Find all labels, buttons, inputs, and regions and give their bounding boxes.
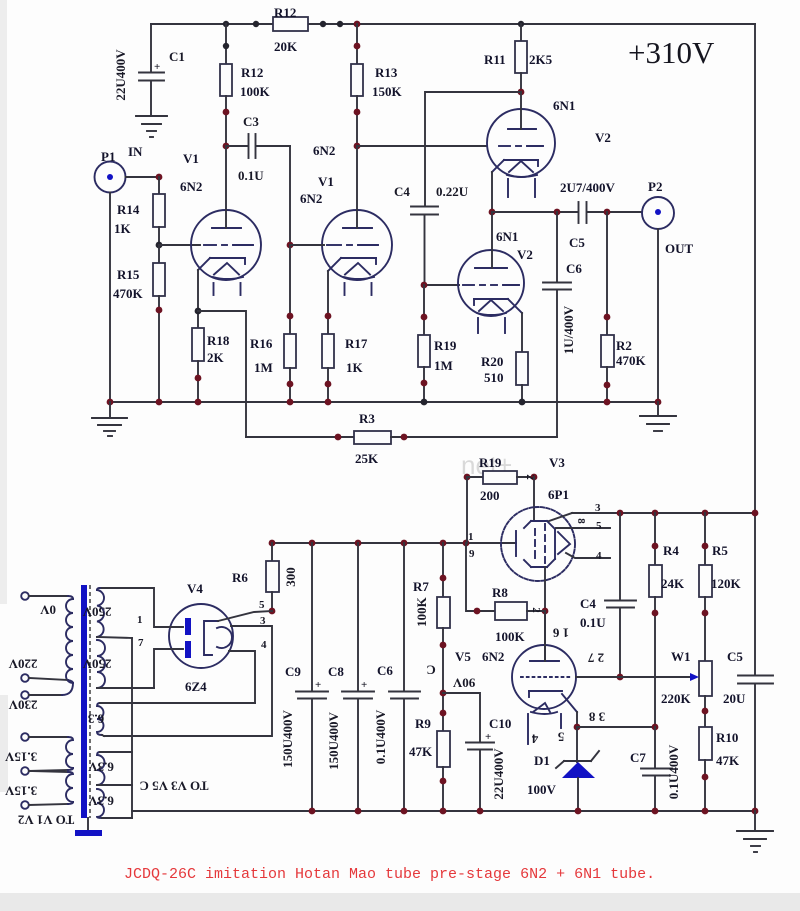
svg-text:JCDQ-26C imitation Hotan Mao t: JCDQ-26C imitation Hotan Mao tube pre-st… [124, 866, 655, 883]
svg-text:R20: R20 [481, 354, 503, 369]
svg-text:+: + [315, 679, 321, 691]
svg-text:1 6: 1 6 [552, 626, 569, 641]
svg-text:9: 9 [469, 548, 475, 560]
wire V4 pin 4 [100, 651, 255, 703]
svg-text:6.3: 6.3 [87, 712, 104, 727]
svg-text:6P1: 6P1 [548, 487, 569, 502]
svg-text:6N2: 6N2 [482, 649, 504, 664]
wire V3 plate pin 3 row [549, 513, 572, 521]
svg-text:1M: 1M [434, 358, 453, 373]
svg-text:R15: R15 [117, 267, 140, 282]
zener diode D1 100V [527, 727, 599, 811]
capacitor C4 0.1U (lower) [580, 513, 636, 680]
wire R19 left to grid bus and R8 [466, 477, 468, 543]
pin 4 stub V3 [566, 553, 610, 558]
svg-text:OUT: OUT [665, 241, 694, 256]
svg-text:P1: P1 [101, 149, 115, 164]
svg-text:6N1: 6N1 [553, 98, 575, 113]
resistor R4 24K [649, 513, 685, 727]
svg-text:W1: W1 [671, 649, 691, 664]
svg-text:5: 5 [596, 520, 602, 532]
transformer HV secondary winding upper [97, 588, 132, 638]
svg-text:2K5: 2K5 [529, 52, 553, 67]
svg-text:3.15V: 3.15V [4, 784, 37, 799]
wire output row to C5 [492, 211, 578, 213]
svg-text:6N2: 6N2 [180, 179, 202, 194]
svg-text:150K: 150K [372, 84, 403, 99]
wire V2 upper cathode to output node [492, 160, 504, 172]
svg-text:3 8: 3 8 [588, 710, 605, 725]
svg-text:220V: 220V [8, 657, 38, 672]
svg-text:5: 5 [259, 599, 265, 611]
HV center tap riser [131, 638, 133, 818]
svg-text:C5: C5 [727, 649, 743, 664]
svg-text:C: C [426, 663, 435, 678]
svg-text:R18: R18 [207, 333, 230, 348]
svg-text:C10: C10 [489, 716, 511, 731]
svg-text:R8: R8 [492, 585, 508, 600]
svg-text:6N1: 6N1 [496, 229, 518, 244]
svg-text:6Z4: 6Z4 [185, 679, 207, 694]
wire V1b plate to 6N1 grid [357, 145, 487, 147]
svg-text:250V: 250V [82, 657, 112, 672]
resistor R9 47K [409, 716, 450, 811]
connector P1 IN [95, 144, 160, 402]
svg-text:100K: 100K [495, 629, 526, 644]
B+ bus (lower section) [272, 542, 516, 544]
svg-text:24K: 24K [661, 576, 685, 591]
svg-text:TO V1 V2: TO V1 V2 [18, 813, 74, 828]
wire feedback from V1a cathode [198, 311, 246, 437]
svg-text:C3: C3 [243, 114, 259, 129]
svg-text:20K: 20K [274, 39, 298, 54]
transformer 3.15V winding b [21, 771, 73, 809]
svg-text:2 7: 2 7 [587, 651, 604, 666]
svg-text:230V: 230V [8, 698, 38, 713]
svg-text:V5: V5 [455, 649, 471, 664]
capacitor C8 150U400V [326, 543, 374, 811]
transformer 3.15V winding a [21, 733, 73, 775]
svg-text:22U400V: 22U400V [491, 748, 506, 800]
svg-text:R6: R6 [232, 570, 248, 585]
wire V5 cathode lead [562, 694, 577, 712]
capacitor C5 20U [723, 649, 773, 811]
potentiometer W1 220K [661, 649, 712, 727]
svg-text:C7: C7 [630, 750, 646, 765]
svg-text:V3: V3 [549, 455, 565, 470]
svg-text:6.3V: 6.3V [88, 760, 114, 775]
ground (C1) [136, 116, 167, 137]
svg-text:V2: V2 [595, 130, 611, 145]
svg-text:+: + [361, 679, 367, 691]
svg-text:C4: C4 [580, 596, 596, 611]
svg-text:250V: 250V [82, 605, 112, 620]
svg-text:V1: V1 [318, 174, 334, 189]
svg-text:D1: D1 [534, 753, 550, 768]
svg-text:R12: R12 [241, 65, 263, 80]
resistor R6 300 [232, 543, 298, 614]
resistor R10 47K [699, 727, 740, 811]
svg-text:22U400V: 22U400V [113, 49, 128, 101]
capacitor C9 150U400V [280, 543, 328, 811]
svg-text:+310V: +310V [628, 35, 715, 70]
resistor R11 2K5 [484, 24, 553, 95]
svg-text:C6: C6 [566, 261, 582, 276]
svg-text:8: 8 [575, 518, 587, 524]
svg-text:+: + [485, 731, 491, 743]
svg-text:47K: 47K [716, 753, 740, 768]
svg-text:R19: R19 [479, 455, 502, 470]
svg-text:3: 3 [595, 502, 601, 514]
transformer T1 core [81, 585, 87, 818]
wire V4 pin 1 [100, 588, 183, 627]
svg-text:510: 510 [484, 370, 504, 385]
svg-text:R2: R2 [616, 338, 632, 353]
resistor R20 510 [481, 352, 528, 402]
capacitor C7 [630, 727, 681, 811]
wire V1b cathode lead [328, 258, 341, 271]
svg-text:7: 7 [138, 637, 144, 649]
svg-text:300: 300 [283, 567, 298, 587]
svg-text:C5: C5 [569, 235, 585, 250]
triode V1 first 6N2 [180, 146, 261, 295]
wire P1 to V1a grid [159, 244, 200, 246]
svg-text:5: 5 [557, 730, 564, 745]
resistor R3 25K (feedback) [246, 411, 557, 466]
svg-text:C6: C6 [377, 663, 393, 678]
svg-text:R3: R3 [359, 411, 375, 426]
ground symbol (bottom right) [737, 811, 773, 852]
svg-text:R14: R14 [117, 202, 140, 217]
svg-text:R13: R13 [375, 65, 398, 80]
wire C3 to V1b grid [289, 146, 291, 245]
svg-text:4: 4 [261, 639, 267, 651]
svg-text:R11: R11 [484, 52, 506, 67]
svg-text:R7: R7 [413, 579, 429, 594]
transformer 6.3V rectifier winding [97, 703, 255, 736]
svg-text:150U400V: 150U400V [280, 710, 295, 768]
svg-text:6N2: 6N2 [300, 191, 322, 206]
svg-text:R4: R4 [663, 543, 679, 558]
svg-text:+: + [154, 61, 160, 73]
svg-text:0.1U400V: 0.1U400V [666, 744, 681, 799]
svg-text:150U400V: 150U400V [326, 712, 341, 770]
svg-text:P2: P2 [648, 179, 662, 194]
svg-text:0.1U: 0.1U [238, 168, 264, 183]
svg-text:4: 4 [596, 550, 602, 562]
resistor R12 20K (horizontal, top rail) [273, 5, 308, 54]
capacitor C6 0.1U400V (lower) [373, 543, 420, 811]
pin 5 stub V3 [556, 527, 610, 529]
triode V5 6N2 [455, 611, 576, 744]
wire V4 pin 3 [104, 626, 272, 736]
resistor R12 100K (vertical) [220, 24, 271, 149]
svg-text:220K: 220K [661, 691, 692, 706]
svg-text:470K: 470K [113, 286, 144, 301]
capacitor C10 22U400V [443, 693, 511, 811]
svg-text:2K: 2K [207, 350, 225, 365]
transformer heater winding d [97, 789, 132, 818]
svg-text:IN: IN [128, 144, 143, 159]
transformer HV secondary winding lower [97, 640, 154, 688]
triode V1 second 6N2 [287, 143, 392, 295]
svg-text:0V: 0V [39, 603, 56, 618]
svg-text:R17: R17 [345, 336, 368, 351]
transformer ground [87, 818, 89, 831]
svg-text:1K: 1K [346, 360, 364, 375]
resistor R7 100K [413, 543, 450, 731]
svg-text:4: 4 [531, 732, 538, 747]
wire V5 grid to W1 wiper [576, 676, 692, 678]
wire V1a cathode lead [198, 258, 210, 270]
svg-text:90V: 90V [452, 676, 475, 691]
svg-text:100K: 100K [240, 84, 271, 99]
svg-text:R16: R16 [250, 336, 273, 351]
svg-text:V2: V2 [517, 247, 533, 262]
resistor R8 100K [492, 585, 545, 644]
pentode V3 6P1 [501, 455, 575, 581]
svg-text:47K: 47K [409, 744, 433, 759]
transformer primary winding 0V-220V [21, 592, 73, 683]
svg-text:C9: C9 [285, 664, 301, 679]
resistor R14 1K [114, 174, 165, 249]
resistor R5 120K [699, 513, 742, 661]
svg-text:C1: C1 [169, 49, 185, 64]
svg-text:470K: 470K [616, 353, 647, 368]
+310V rail (top) [151, 23, 755, 25]
svg-text:20U: 20U [723, 691, 746, 706]
wire C4 to V2 grid [424, 284, 459, 286]
capacitor C4 0.22U [394, 184, 469, 285]
resistor R16 1M [250, 245, 296, 402]
wire V4 pin 5 to R6 [218, 611, 272, 621]
svg-text:C8: C8 [328, 664, 344, 679]
transformer heater winding c [97, 752, 132, 785]
wire V4 pin 7 [100, 649, 183, 688]
wire R11 node left and down to C4 [425, 92, 521, 206]
ground bus (upper section) [110, 401, 658, 403]
connector P2 OUT [642, 179, 694, 402]
svg-text:0.22U: 0.22U [436, 184, 469, 199]
svg-text:2: 2 [530, 607, 542, 613]
svg-text:0.1U400V: 0.1U400V [373, 709, 388, 764]
ground symbol (left) [92, 402, 127, 436]
svg-text:R19: R19 [434, 338, 457, 353]
svg-text:1K: 1K [114, 221, 132, 236]
svg-text:R9: R9 [415, 716, 431, 731]
rectifier V4 6Z4 [169, 581, 233, 694]
resistor R15 470K [113, 245, 165, 402]
wire V2 lower cathode lead [508, 299, 522, 313]
svg-text:100V: 100V [527, 782, 557, 797]
triode V2 upper 6N1 [487, 92, 611, 197]
svg-text:3: 3 [260, 615, 266, 627]
triode V2 lower 6N1 [458, 212, 533, 333]
svg-text:100K: 100K [414, 596, 429, 627]
svg-text:1: 1 [468, 531, 474, 543]
svg-text:R10: R10 [716, 730, 738, 745]
resistor R13 150K [351, 24, 403, 149]
svg-text:120K: 120K [711, 576, 742, 591]
svg-text:0.1U: 0.1U [580, 615, 606, 630]
svg-text:V4: V4 [187, 581, 203, 596]
capacitor C5 2U7/400V [560, 180, 642, 250]
resistor R19 200 (grid stopper) [464, 455, 538, 503]
svg-text:R12: R12 [274, 5, 296, 20]
right border +310V line [754, 24, 756, 675]
svg-text:3.15V: 3.15V [4, 750, 37, 765]
junction dots on top rail [223, 21, 229, 27]
wire cathode row to C7 [577, 726, 655, 728]
capacitor C6 1U/400V [543, 212, 582, 437]
capacitor C1 [113, 24, 185, 115]
resistor R18 2K [192, 328, 230, 402]
wire R19 right into V3 [533, 477, 535, 521]
svg-text:200: 200 [480, 488, 500, 503]
resistor R19 1M [418, 285, 457, 402]
bottom ground bus [132, 810, 755, 812]
svg-text:1: 1 [137, 614, 143, 626]
capacitor C3 0.1U (coupling) [226, 114, 290, 183]
svg-text:C4: C4 [394, 184, 410, 199]
svg-text:1M: 1M [254, 360, 273, 375]
svg-text:TO V3 V5 C: TO V3 V5 C [140, 779, 209, 794]
resistor R2 470K [601, 212, 647, 402]
transformer primary tap 230V [21, 683, 73, 699]
ground symbol (right of upper bus) [640, 402, 676, 431]
svg-text:25K: 25K [355, 451, 379, 466]
svg-text:6N2: 6N2 [313, 143, 335, 158]
svg-text:V1: V1 [183, 151, 199, 166]
wire V3 cathode down to V5 plate [544, 567, 546, 661]
svg-text:1U/400V: 1U/400V [561, 305, 576, 354]
svg-text:2U7/400V: 2U7/400V [560, 180, 616, 195]
svg-text:R5: R5 [712, 543, 728, 558]
svg-text:6.3V: 6.3V [88, 794, 114, 809]
resistor R17 1K [322, 334, 368, 402]
